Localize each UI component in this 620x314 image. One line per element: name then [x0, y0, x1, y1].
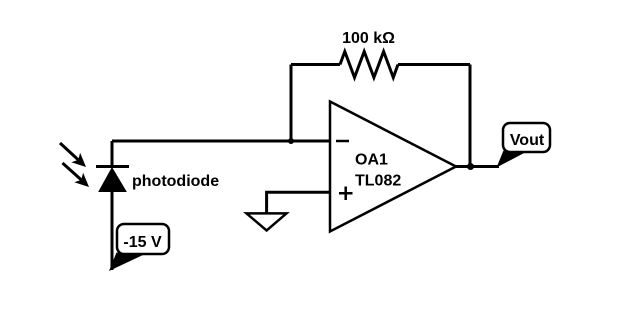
photodiode D1 body (filled triangle, anode below) — [99, 168, 126, 192]
pin: inverting input minus sign — [336, 140, 349, 143]
light arrow 2 — [63, 163, 90, 187]
wire: op-amp output to Vout tap — [454, 165, 499, 168]
callout box -15 V — [117, 224, 169, 254]
wire: feedback left vertical riser — [290, 65, 293, 142]
svg-text:photodiode: photodiode — [132, 173, 219, 190]
photodiode D1 cathode bar — [96, 165, 129, 168]
svg-text:Vout: Vout — [510, 132, 545, 149]
callout box Vout — [503, 123, 550, 152]
wire: top feedback left horizontal segment — [291, 63, 340, 66]
pin: non-inverting input plus sign — [339, 187, 353, 201]
wire: photodiode cathode lead (vertical) — [111, 141, 114, 167]
wire: non-inverting input to ground — [267, 192, 330, 213]
node: output junction dot — [467, 163, 474, 170]
svg-text:OA1: OA1 — [355, 152, 388, 169]
wire: top feedback right horizontal segment — [398, 63, 470, 66]
node: inverting input junction dot — [288, 138, 294, 144]
op-amp U1 body (triangle) — [330, 102, 456, 232]
svg-text:-15 V: -15 V — [123, 234, 162, 251]
ground symbol — [247, 213, 287, 230]
wire: inverting input net (photodiode to op-amp minus input) — [112, 140, 330, 143]
resistor R1 100 kΩ (feedback zigzag) — [340, 52, 398, 78]
wire: photodiode anode lead down to -15V — [111, 191, 114, 270]
svg-text:TL082: TL082 — [355, 173, 401, 190]
svg-text:100 kΩ: 100 kΩ — [342, 30, 395, 47]
callout tail for -15 V — [109, 253, 144, 272]
wire: feedback right vertical drop to output node — [469, 65, 472, 168]
callout tail for Vout — [497, 151, 526, 168]
light arrow 1 — [60, 143, 86, 167]
